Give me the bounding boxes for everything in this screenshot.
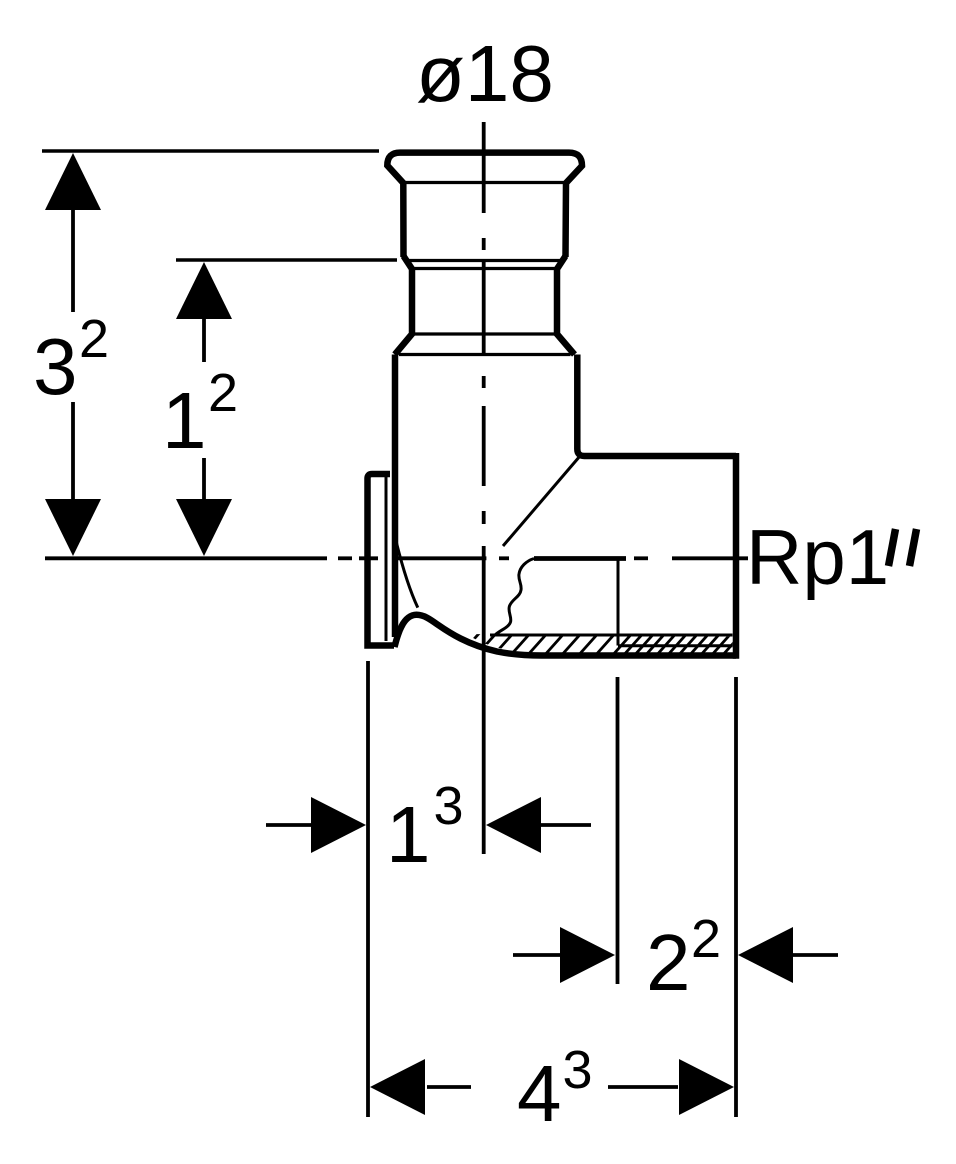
double prime mark bbox=[889, 529, 917, 566]
arrow left 1 3 bbox=[486, 797, 541, 853]
svg-text:2: 2 bbox=[79, 309, 109, 369]
svg-text:1: 1 bbox=[162, 376, 207, 465]
dimension 1 2 vertical bbox=[202, 318, 206, 501]
extension line step (1 2) bbox=[176, 258, 397, 261]
horizontal centerline / axis bbox=[45, 556, 748, 560]
extension line port face bbox=[734, 677, 738, 1117]
label 1 3 bbox=[386, 776, 464, 879]
dimension 3 2 vertical bbox=[71, 208, 75, 501]
press socket bead (top o-ring housing) bbox=[387, 153, 582, 257]
svg-text:1: 1 bbox=[386, 790, 431, 879]
dimension 1 3 horizontal bbox=[266, 823, 591, 827]
thread root line bbox=[618, 644, 733, 647]
left press flange bbox=[368, 474, 395, 646]
inner chamfer diagonal bbox=[503, 456, 580, 546]
arrow down 1 2 bbox=[176, 499, 232, 556]
inner fillet thin curve bbox=[397, 543, 418, 608]
flange inner face thin line bbox=[385, 477, 388, 641]
label 4 3 bbox=[517, 1040, 593, 1138]
arrow left 4 3 bbox=[370, 1059, 425, 1115]
arrow up 1 2 bbox=[176, 262, 232, 319]
dimension 2 2 horizontal bbox=[513, 953, 838, 957]
thread bore line bbox=[534, 556, 626, 561]
arrow down 3 2 bbox=[45, 499, 101, 556]
vertical centerline bbox=[482, 122, 486, 854]
dimension 4 3 horizontal bbox=[427, 1085, 678, 1089]
arrow right 1 3 bbox=[311, 797, 366, 853]
label 3 2 bbox=[33, 309, 109, 411]
extension line thread end bbox=[616, 677, 620, 984]
arrow right 2 2 bbox=[560, 927, 615, 983]
svg-text:4: 4 bbox=[517, 1049, 562, 1138]
svg-text:3: 3 bbox=[563, 1040, 593, 1100]
svg-text:2: 2 bbox=[646, 918, 691, 1007]
extension line top (32) bbox=[42, 149, 379, 152]
arrow right 4 3 bbox=[679, 1059, 734, 1115]
break (wavy) line bbox=[495, 559, 535, 636]
extension line flange face bbox=[366, 661, 370, 1117]
arrow up 3 2 bbox=[45, 153, 101, 210]
svg-text:Rp1: Rp1 bbox=[746, 513, 889, 601]
elbow body outline bbox=[395, 355, 736, 659]
thread end vertical line bbox=[617, 559, 620, 646]
svg-text:2: 2 bbox=[691, 909, 721, 969]
section hatching bbox=[458, 629, 746, 657]
hatch inner bore line bbox=[490, 634, 733, 637]
svg-text:ø18: ø18 bbox=[416, 29, 554, 118]
press socket step chamfer bbox=[395, 256, 575, 355]
arrow left 2 2 bbox=[738, 927, 793, 983]
socket thin detail lines bbox=[399, 183, 571, 355]
body bottom sweep with hump bbox=[395, 615, 737, 656]
label 1 2 bbox=[162, 363, 238, 465]
svg-text:3: 3 bbox=[434, 776, 464, 836]
svg-text:2: 2 bbox=[208, 363, 238, 423]
svg-text:3: 3 bbox=[33, 322, 78, 411]
label 2 2 bbox=[646, 909, 721, 1007]
